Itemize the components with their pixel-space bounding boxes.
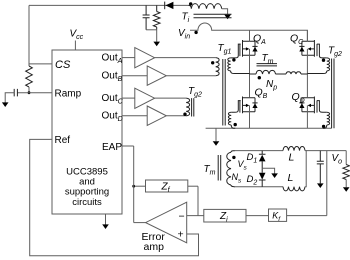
wire QA drain xyxy=(249,30,251,41)
transistor QB xyxy=(240,97,258,114)
wire rectifier top rail xyxy=(234,150,283,152)
wire QC drain xyxy=(306,30,308,41)
capacitor C-vcc xyxy=(143,5,150,29)
chip UCC3895 box xyxy=(52,50,122,214)
wire resistor bottom to Ramp node xyxy=(28,87,30,93)
wire cap to ground xyxy=(5,93,14,103)
wire Vo sense down xyxy=(326,151,328,216)
svg-text:circuits: circuits xyxy=(72,197,102,208)
node Tg2 secD dot xyxy=(322,125,325,128)
wire OutB to Tg1 xyxy=(166,75,215,77)
op-amp U-error xyxy=(146,202,187,243)
wire EAP pin xyxy=(122,145,134,147)
svg-text:Ref: Ref xyxy=(55,135,71,146)
wire Vin to bridge with hop xyxy=(190,23,307,41)
node Tg1 secB dot xyxy=(234,123,237,126)
wire Vcc stub xyxy=(74,41,76,51)
node Tg2 secC dot xyxy=(322,59,325,62)
wire bridge bottom rail xyxy=(206,127,332,129)
transformer Tg1 secondary B xyxy=(228,112,231,125)
svg-text:Ramp: Ramp xyxy=(55,88,82,99)
node Ti dot xyxy=(189,2,192,5)
wire OutA xyxy=(122,57,135,59)
node Vs dot xyxy=(232,156,235,159)
transformer Tg1 secondary A xyxy=(228,58,231,71)
transformer Tg1 primary winding xyxy=(216,58,219,76)
transistor QA xyxy=(240,40,258,57)
svg-text:amp: amp xyxy=(144,241,165,253)
wire CS pin xyxy=(29,63,52,65)
wire Tm sec bottom elbow xyxy=(231,185,235,187)
transformer Tg2 secondary D xyxy=(327,112,330,125)
wire output corner to load xyxy=(345,151,347,165)
wire load stem xyxy=(345,180,347,188)
wire OutB xyxy=(122,75,147,77)
wire Kf to Zi xyxy=(246,215,269,217)
transformer Tm primary Np xyxy=(250,70,308,74)
wire EA plus input xyxy=(30,139,199,255)
wire rectifier mid tap xyxy=(262,168,274,173)
wire OutD to Tg2 xyxy=(166,115,186,117)
ground (chip) xyxy=(102,224,109,229)
wire Tg1 secA to source xyxy=(231,71,250,74)
wire top-left loop xyxy=(29,4,191,6)
transformer Tm core (top) xyxy=(257,64,278,66)
ground (bias) xyxy=(153,42,160,47)
wire chip ground stub xyxy=(105,214,107,225)
arrow (mid tap return) xyxy=(271,173,278,178)
arrow (Ti down) xyxy=(224,15,231,20)
wire Zf right leg xyxy=(197,186,199,215)
resistor R-vcc xyxy=(153,5,160,29)
node Ramp junction xyxy=(28,91,31,94)
buffer OutA xyxy=(135,48,155,68)
node EAP junction xyxy=(132,185,135,188)
wire QD gate hook xyxy=(317,101,327,113)
buffer OutB xyxy=(147,66,166,85)
transformer Ti core xyxy=(194,14,232,18)
svg-text:−: − xyxy=(179,211,185,223)
diode D1 xyxy=(259,155,266,162)
node Tg1 secA dot xyxy=(232,58,235,61)
wire OutC to Tg2 xyxy=(155,97,187,99)
block Kf xyxy=(269,209,287,221)
capacitor C-ramp xyxy=(14,89,17,97)
transformer Tg2 core xyxy=(332,59,334,129)
ground (ramp cap) xyxy=(2,102,9,107)
wire Tm sec top elbow xyxy=(231,151,235,153)
node Np dot xyxy=(258,76,261,79)
wire Tg2 secC to source xyxy=(307,71,326,74)
wire left vertical from top to CS xyxy=(28,5,30,66)
wire QB gate hook xyxy=(231,101,241,113)
wire cap-res bottom xyxy=(146,29,157,31)
wire Ti output arrow xyxy=(222,9,228,15)
wire Kf to sense xyxy=(287,215,327,217)
node Vin dot xyxy=(194,31,197,34)
ground (bridge) xyxy=(213,141,220,146)
wire EAP down to EA output xyxy=(133,146,135,223)
svg-text:L: L xyxy=(288,172,294,184)
svg-text:L: L xyxy=(289,152,295,164)
block Zi xyxy=(204,209,246,222)
transformer Tg1 core xyxy=(223,59,225,126)
wire OutD xyxy=(122,115,147,117)
wire QD drain xyxy=(306,74,308,98)
wire Tg2 secD to rail xyxy=(323,125,327,128)
wire QB drain xyxy=(249,74,251,98)
transformer Tg2 primary winding xyxy=(186,98,189,116)
block Zf xyxy=(146,180,188,192)
inductor L2 xyxy=(283,187,305,191)
wire QC source to Tm node xyxy=(306,49,308,74)
transistor QD xyxy=(299,97,317,114)
wire Ramp pin xyxy=(17,92,52,94)
wire Zf right xyxy=(188,185,198,187)
wire L joined output xyxy=(305,151,306,187)
capacitor C-out xyxy=(317,151,324,184)
diode D2 xyxy=(259,173,266,180)
svg-text:+: + xyxy=(178,229,184,241)
diode D-bias xyxy=(165,2,173,9)
inductor L1 xyxy=(283,146,305,150)
transistor QC xyxy=(299,40,317,57)
wire EA output xyxy=(134,222,146,224)
transformer Tm secondary core xyxy=(218,155,221,181)
wire QB source to rail xyxy=(249,105,251,128)
arrow (load return) xyxy=(343,187,350,192)
wire QA source to Tm node xyxy=(249,49,251,74)
transformer Tg2 primary core xyxy=(192,98,194,116)
wire rectifier bottom rail xyxy=(234,186,283,188)
wire Zi to inverting input xyxy=(187,215,204,217)
wire QC gate hook xyxy=(317,44,327,58)
transformer Tm secondary winding xyxy=(227,152,231,185)
wire output rail xyxy=(306,150,346,152)
resistor R-load xyxy=(343,165,350,180)
node Tg2 primary dot xyxy=(183,113,186,116)
arrow (cap return) xyxy=(317,183,324,188)
wire QD source to rail xyxy=(306,105,308,128)
svg-text:EAP: EAP xyxy=(102,142,122,153)
wire OutC xyxy=(122,97,135,99)
buffer OutD xyxy=(147,106,166,125)
wire QA gate hook xyxy=(231,44,241,58)
wire bias ground stem xyxy=(156,30,158,42)
resistor R-CS (slope comp) xyxy=(26,66,33,87)
wire bridge ground stem xyxy=(215,128,217,141)
node Tg1 primary dot xyxy=(211,61,214,64)
wire OutA to Tg1 xyxy=(155,57,216,59)
inductor Ti winding xyxy=(189,4,222,9)
wire Zf left xyxy=(134,185,146,187)
transformer Tg2 secondary C xyxy=(327,58,330,71)
svg-text:CS: CS xyxy=(55,59,71,71)
wire Tg1 secB to rail xyxy=(231,125,235,128)
buffer OutC xyxy=(135,88,155,108)
